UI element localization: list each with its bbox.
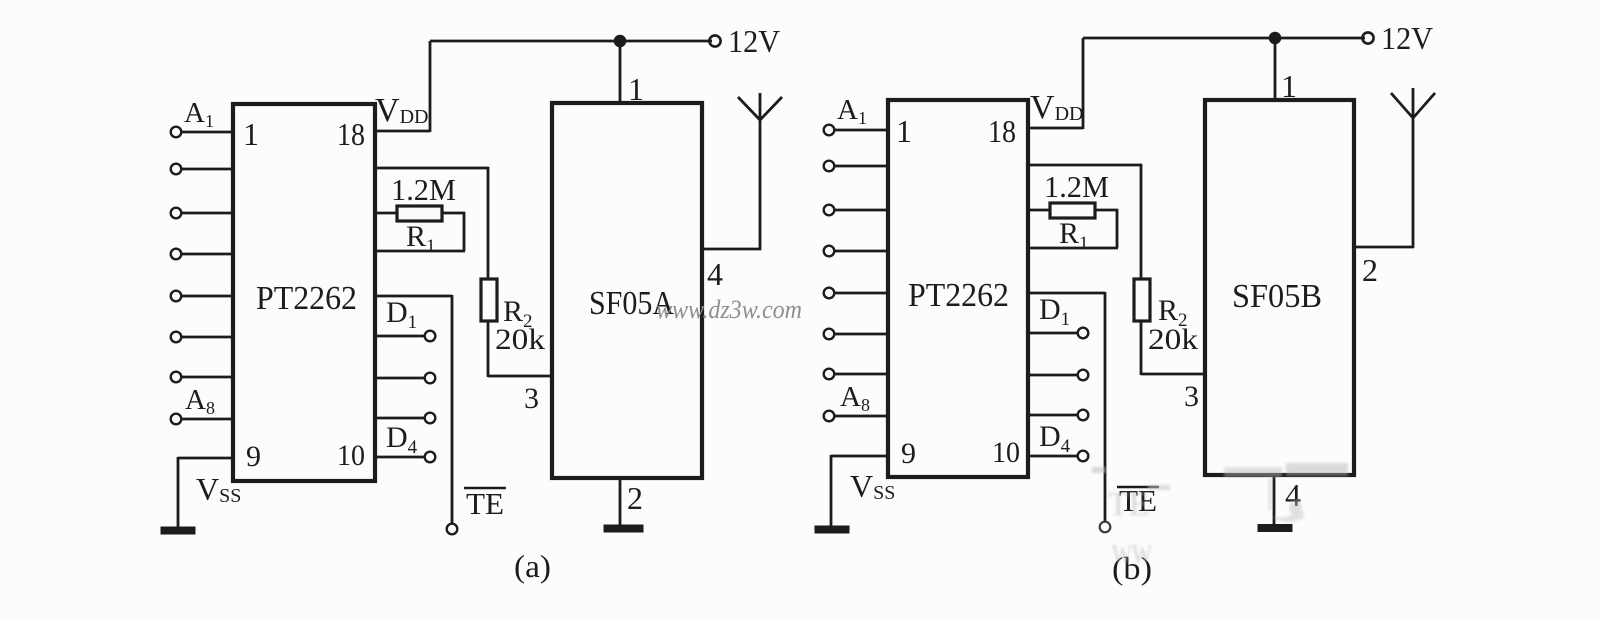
pin number 1 of U4 (b) bbox=[1281, 68, 1297, 104]
ground symbol below U4 (b) bbox=[1258, 525, 1292, 532]
wire R1 right lead bbox=[442, 212, 465, 215]
pin number 4 of U4 (b) bbox=[1285, 477, 1301, 513]
terminal circle D4 (b) bbox=[1078, 451, 1089, 462]
wire TE horizontal from U1 (a) bbox=[375, 295, 452, 298]
resistor R4 20k (b) bbox=[1134, 279, 1150, 321]
pin number 10 of U3 bbox=[992, 436, 1020, 469]
label D1 (b) bbox=[1039, 293, 1070, 330]
wire pin 2 of U2 to ground (a) bbox=[619, 478, 622, 527]
label TE with overbar (a) bbox=[466, 486, 504, 521]
svg-text:(a): (a) bbox=[514, 548, 551, 584]
wire address pin 4 of U1 bbox=[181, 253, 233, 256]
label VDD (a) bbox=[375, 92, 428, 129]
overbar of TE label (a) bbox=[464, 487, 506, 490]
svg-text:PT2262: PT2262 bbox=[256, 280, 357, 317]
resistor R3 1.2M (b) bbox=[1050, 203, 1095, 218]
wire VSS pin 9 horizontal bbox=[178, 457, 233, 460]
svg-text:4: 4 bbox=[707, 256, 723, 292]
label VSS bbox=[196, 471, 241, 507]
pin number 2 of U4 (b) bbox=[1362, 252, 1378, 288]
label R2 (b) bbox=[1158, 294, 1188, 331]
pin number 3 of U2 (a) bbox=[524, 382, 539, 415]
wire address pin 2 of U1 bbox=[181, 168, 233, 171]
label A8 (b) bbox=[840, 381, 870, 415]
wire R2 to pin 3 of U2 (a) bbox=[488, 375, 552, 378]
label VDD (b) bbox=[1030, 89, 1083, 126]
wire pin 1 of U2 from rail (a) bbox=[619, 41, 622, 103]
svg-text:SF05B: SF05B bbox=[1232, 278, 1322, 315]
terminal circle address pin 5 (b) bbox=[824, 288, 835, 299]
wire R3 loop bottom return bbox=[1028, 247, 1118, 250]
IC U3 PT2262 (encoder, circuit b) bbox=[888, 100, 1028, 477]
wire R2 bottom lead (a) bbox=[487, 320, 490, 377]
wire data pin D4 (a) bbox=[375, 456, 425, 459]
wire address pin 6 of U3 bbox=[834, 333, 888, 336]
label TE with overbar (b) bbox=[1119, 483, 1157, 518]
svg-text:3: 3 bbox=[1184, 380, 1199, 413]
wire address pin 8 of U3 bbox=[834, 415, 888, 418]
wire R1 left lead bbox=[375, 212, 397, 215]
wire VSS vertical (b) bbox=[830, 455, 833, 529]
svg-text:1.2M: 1.2M bbox=[391, 172, 456, 207]
label A1 (b) bbox=[837, 94, 867, 128]
label D4 (a) bbox=[386, 421, 418, 458]
terminal circle D3 (b) bbox=[1078, 410, 1089, 421]
terminal circle address pin 7 (b) bbox=[824, 369, 835, 380]
pin number 9 of U1 bbox=[246, 440, 261, 473]
svg-text:2: 2 bbox=[627, 480, 643, 516]
wire address pin 1 of U3 bbox=[834, 129, 888, 132]
wire R2 top lead (a) bbox=[487, 167, 490, 280]
wire address pin 1 of U1 bbox=[181, 131, 233, 134]
label U4 SF05B bbox=[1232, 278, 1322, 315]
svg-text:3: 3 bbox=[524, 382, 539, 415]
wire address pin 7 of U3 bbox=[834, 373, 888, 376]
terminal circle address pin 4 (b) bbox=[824, 246, 835, 257]
pin number 18 of U3 bbox=[988, 113, 1016, 149]
terminal circle D3 (a) bbox=[425, 413, 436, 424]
terminal circle address pin 8 bbox=[171, 414, 182, 425]
wire address pin 8 of U1 bbox=[181, 418, 233, 421]
svg-text:1.2M: 1.2M bbox=[1044, 169, 1109, 204]
label VSS (b) bbox=[850, 468, 895, 504]
wire VSS vertical bbox=[177, 457, 180, 530]
junction dot on 12V rail (b) bbox=[1269, 32, 1282, 45]
value label 20k (b) bbox=[1148, 323, 1198, 356]
label A8 bbox=[185, 384, 215, 418]
terminal circle address pin 8 (b) bbox=[824, 411, 835, 422]
terminal circle D1 (b) bbox=[1078, 328, 1089, 339]
ground symbol VSS (a) bbox=[161, 527, 195, 534]
wire R3 left lead bbox=[1028, 209, 1050, 212]
svg-text:1: 1 bbox=[896, 113, 912, 149]
wire address pin 4 of U3 bbox=[834, 250, 888, 253]
terminal circle 12V (b) bbox=[1362, 32, 1373, 43]
wire data pin D2 (b) bbox=[1028, 374, 1078, 377]
pin number 1 of U3 bbox=[896, 113, 912, 149]
ground symbol below U2 (a) bbox=[604, 525, 643, 532]
wire R2 top lead (b) bbox=[1140, 164, 1143, 280]
value label 1.2M (b) bbox=[1044, 169, 1109, 204]
terminal circle address pin 1 bbox=[171, 127, 182, 138]
faded watermark smudge along bottom of U4 (b) bbox=[1224, 463, 1348, 522]
wire VSS pin 9 horizontal (b) bbox=[831, 455, 888, 458]
wire data pin D3 (b) bbox=[1028, 414, 1078, 417]
terminal circle TE (b) bbox=[1100, 522, 1111, 533]
svg-text:9: 9 bbox=[901, 437, 916, 470]
svg-text:9: 9 bbox=[246, 440, 261, 473]
value label 20k (a) bbox=[495, 323, 545, 356]
wire antenna vertical (b) bbox=[1412, 88, 1415, 248]
terminal circle 12V (a) bbox=[709, 35, 720, 46]
svg-text:www.dz3w.com: www.dz3w.com bbox=[656, 295, 802, 324]
wire address pin 5 of U3 bbox=[834, 292, 888, 295]
wire address pin 3 of U3 bbox=[834, 209, 888, 212]
terminal circle address pin 6 (b) bbox=[824, 329, 835, 340]
wire TE vertical (b) bbox=[1104, 292, 1107, 521]
terminal circle D2 (a) bbox=[425, 373, 436, 384]
wire pin 4 of U4 to ground (b) bbox=[1273, 475, 1276, 526]
terminal circle address pin 4 bbox=[171, 249, 182, 260]
terminal circle D2 (b) bbox=[1078, 370, 1089, 381]
terminal circle address pin 2 (b) bbox=[824, 161, 835, 172]
terminal circle address pin 3 bbox=[171, 208, 182, 219]
wire 12V supply rail (a) bbox=[430, 40, 712, 43]
terminal circle address pin 5 bbox=[171, 291, 182, 302]
wire TE horizontal from U3 (b) bbox=[1028, 292, 1105, 295]
terminal circle address pin 1 (b) bbox=[824, 125, 835, 136]
wire address pin 3 of U1 bbox=[181, 212, 233, 215]
label R1 (b) bbox=[1059, 217, 1089, 254]
svg-text:1: 1 bbox=[243, 116, 259, 152]
svg-text:10: 10 bbox=[337, 439, 365, 472]
wire data pin D2 (a) bbox=[375, 377, 425, 380]
faded watermark ghost behind TE (b) bbox=[1092, 467, 1170, 523]
pin number 9 of U3 bbox=[901, 437, 916, 470]
wire R2 to pin 3 of U4 (b) bbox=[1141, 373, 1205, 376]
watermark www.dz3w.com bbox=[656, 295, 802, 324]
label R2 (a) bbox=[503, 295, 533, 332]
svg-text:2: 2 bbox=[1362, 252, 1378, 288]
label D4 (b) bbox=[1039, 420, 1071, 457]
wire address pin 2 of U3 bbox=[834, 165, 888, 168]
label U1 PT2262 bbox=[256, 280, 357, 317]
svg-text:20k: 20k bbox=[495, 323, 545, 356]
wire VDD pin 18 horizontal bbox=[375, 130, 430, 133]
wire pin 1 of U4 from rail (b) bbox=[1274, 38, 1277, 100]
pin number 10 of U1 bbox=[337, 439, 365, 472]
label R1 (a) bbox=[406, 220, 436, 257]
antenna right prong (a) bbox=[760, 97, 782, 120]
svg-text:1: 1 bbox=[1281, 68, 1297, 104]
svg-text:PT2262: PT2262 bbox=[908, 277, 1009, 314]
label U2 SF05A bbox=[589, 285, 674, 322]
terminal circle D1 (a) bbox=[425, 331, 436, 342]
wire antenna vertical (a) bbox=[759, 93, 762, 250]
wire R2 bottom lead (b) bbox=[1140, 320, 1143, 375]
wire R1 loop right vertical bbox=[463, 212, 466, 251]
terminal circle D4 (a) bbox=[425, 452, 436, 463]
resistor R1 1.2M (a) bbox=[397, 206, 442, 221]
wire address pin 7 of U1 bbox=[181, 376, 233, 379]
pin number 3 of U4 (b) bbox=[1184, 380, 1199, 413]
label U3 PT2262 bbox=[908, 277, 1009, 314]
wire TE vertical (a) bbox=[451, 295, 454, 524]
terminal circle address pin 6 bbox=[171, 332, 182, 343]
antenna left prong (a) bbox=[738, 97, 760, 120]
caption (b) bbox=[1112, 550, 1152, 586]
terminal circle TE (a) bbox=[447, 524, 458, 535]
terminal circle address pin 7 bbox=[171, 372, 182, 383]
junction dot on 12V rail (a) bbox=[614, 35, 627, 48]
IC U4 SF05B (transmitter, circuit b) bbox=[1205, 100, 1354, 475]
antenna left prong (b) bbox=[1391, 93, 1413, 118]
wire VDD riser vertical bbox=[429, 41, 432, 132]
IC U1 PT2262 (encoder, circuit a) bbox=[233, 104, 375, 481]
svg-text:18: 18 bbox=[988, 113, 1016, 149]
wire antenna horizontal (b) bbox=[1354, 246, 1414, 249]
wire VDD pin 18 horizontal (b) bbox=[1028, 127, 1083, 130]
svg-text:10: 10 bbox=[992, 436, 1020, 469]
wire OSC output horizontal to R2 (b) bbox=[1028, 164, 1142, 167]
svg-text:1: 1 bbox=[628, 71, 644, 107]
svg-text:WW: WW bbox=[1112, 540, 1152, 569]
caption (a) bbox=[514, 548, 551, 584]
wire address pin 5 of U1 bbox=[181, 295, 233, 298]
pin number 2 of U2 (a) bbox=[627, 480, 643, 516]
wire data pin D3 (a) bbox=[375, 417, 425, 420]
label 12V (b) bbox=[1381, 20, 1433, 56]
overbar of TE label (b) bbox=[1117, 486, 1159, 489]
terminal circle address pin 2 bbox=[171, 164, 182, 175]
antenna right prong (b) bbox=[1413, 93, 1435, 118]
resistor R2 20k (a) bbox=[481, 279, 497, 321]
wire VDD riser vertical (b) bbox=[1082, 38, 1085, 129]
wire data pin D4 (b) bbox=[1028, 455, 1078, 458]
value label 1.2M (a) bbox=[391, 172, 456, 207]
wire R3 loop right vertical bbox=[1116, 209, 1119, 248]
svg-text:TE: TE bbox=[1108, 486, 1150, 523]
wire R1 loop bottom return bbox=[375, 250, 465, 253]
wire R3 right lead bbox=[1095, 209, 1118, 212]
pin number 4 of U2 (a) bbox=[707, 256, 723, 292]
wire OSC output horizontal to R2 (a) bbox=[375, 167, 489, 170]
faded watermark ghost letters WW below TE (b) bbox=[1112, 540, 1152, 569]
pin number 1 of U2 (a) bbox=[628, 71, 644, 107]
wire data pin D1 (b) bbox=[1028, 332, 1078, 335]
wire address pin 6 of U1 bbox=[181, 336, 233, 339]
wire antenna horizontal (a) bbox=[701, 248, 761, 251]
label D1 (a) bbox=[386, 296, 417, 333]
svg-text:TE: TE bbox=[466, 486, 504, 521]
ground symbol VSS (b) bbox=[815, 526, 849, 533]
svg-text:12V: 12V bbox=[1381, 20, 1433, 56]
label A1 bbox=[184, 97, 214, 131]
terminal circle address pin 3 (b) bbox=[824, 205, 835, 216]
svg-text:18: 18 bbox=[337, 116, 365, 152]
pin number 1 of U1 bbox=[243, 116, 259, 152]
svg-text:12V: 12V bbox=[728, 23, 780, 59]
IC U2 SF05A (transmitter, circuit a) bbox=[552, 103, 702, 478]
wire 12V supply rail (b) bbox=[1083, 37, 1365, 40]
svg-text:20k: 20k bbox=[1148, 323, 1198, 356]
label 12V (a) bbox=[728, 23, 780, 59]
pin number 18 of U1 bbox=[337, 116, 365, 152]
wire data pin D1 (a) bbox=[375, 335, 425, 338]
